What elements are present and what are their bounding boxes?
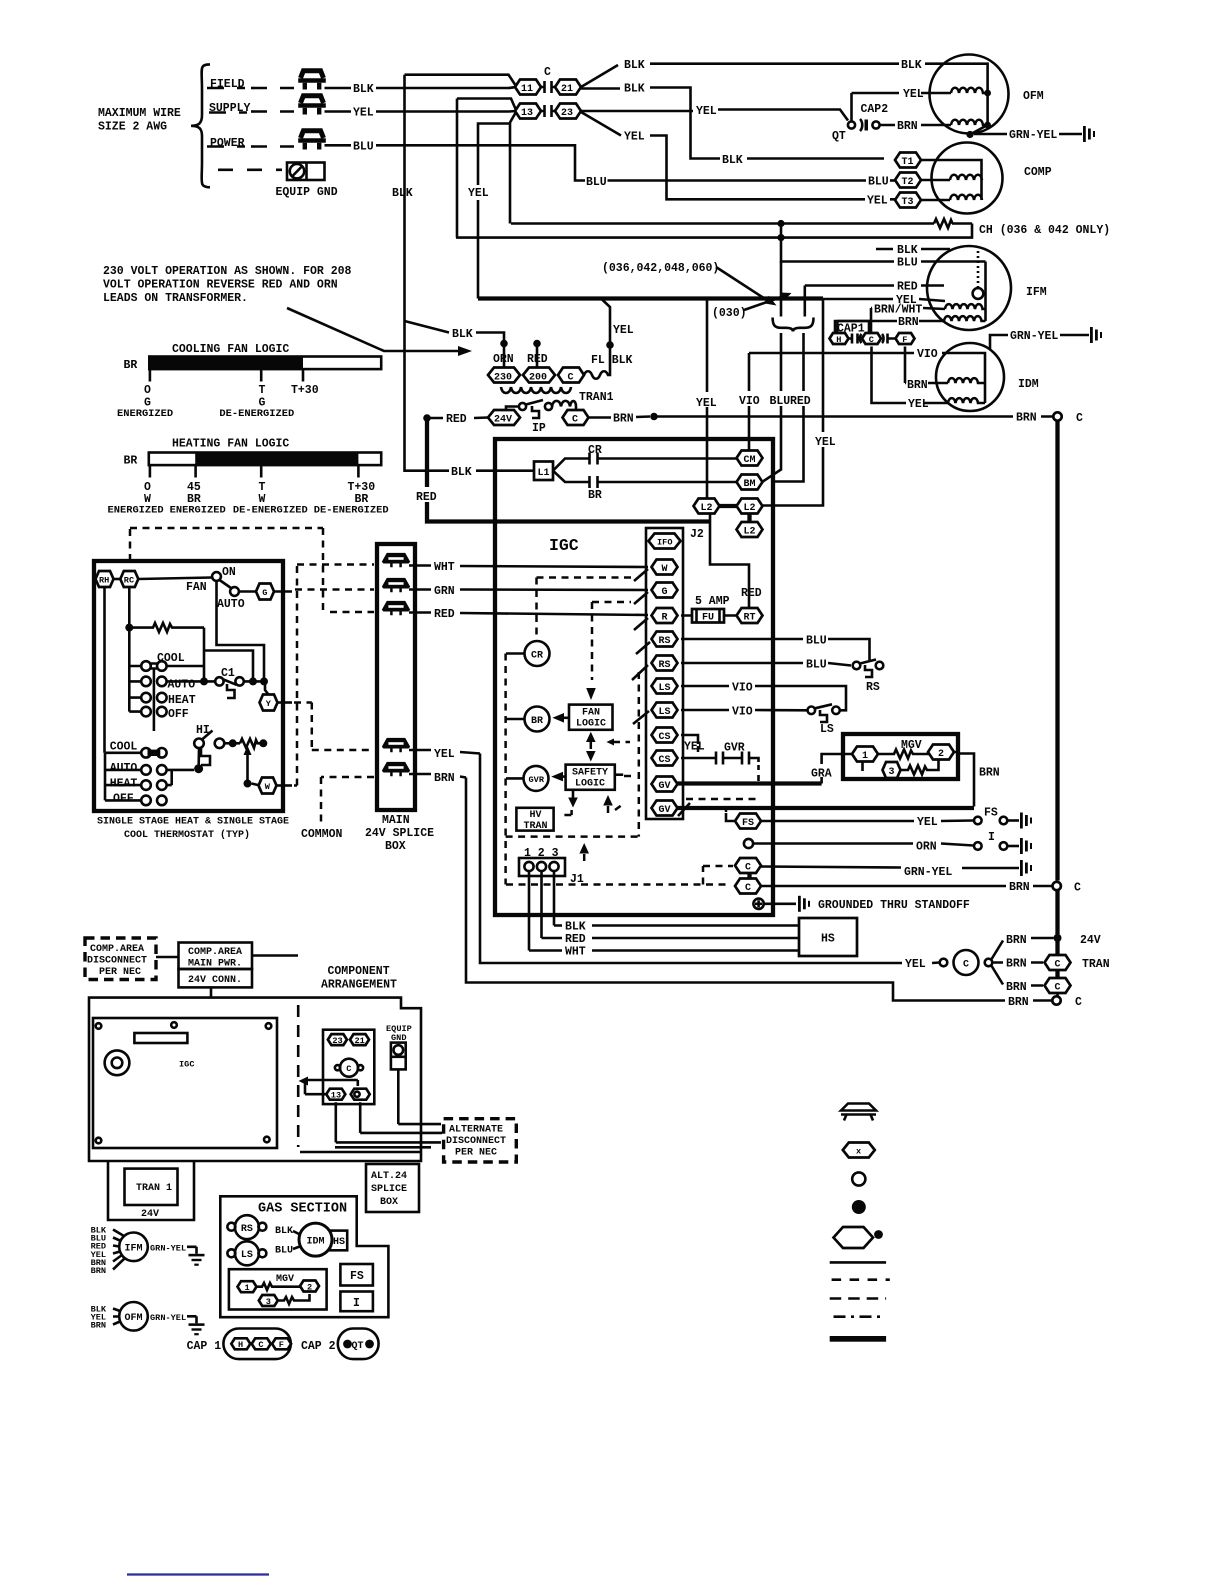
svg-text:O: O bbox=[144, 384, 151, 397]
svg-text:Y: Y bbox=[266, 699, 272, 709]
legend IFM circle bbox=[119, 1233, 148, 1262]
terminal MGV2 gas bbox=[300, 1281, 319, 1293]
MGV pin 1 tail bbox=[861, 762, 864, 772]
IGC panel washer bbox=[105, 1050, 130, 1075]
wire BRN long to C right bbox=[654, 415, 1053, 418]
selector upper circles col1 bbox=[141, 661, 151, 716]
arrows between fan and safety bbox=[586, 732, 596, 742]
wire BLU IFM bbox=[781, 224, 986, 262]
junction dot OFM bottom bbox=[966, 131, 973, 138]
slash R bbox=[634, 618, 648, 630]
terminal RS1 bbox=[652, 632, 678, 648]
OFM legend wires bbox=[113, 1309, 120, 1325]
svg-text:COOL: COOL bbox=[110, 741, 138, 754]
legend symbol plug hex bbox=[834, 1227, 883, 1248]
selector lower circles col2 bbox=[157, 748, 167, 805]
svg-text:YEL: YEL bbox=[917, 816, 938, 829]
wire RH down feeder bbox=[103, 587, 106, 753]
equip gnd lug arrangement bbox=[391, 1043, 406, 1070]
cluster wiring bbox=[305, 1080, 358, 1094]
svg-text:BLU: BLU bbox=[586, 176, 607, 189]
terminal Y bbox=[260, 695, 278, 711]
svg-text:RS: RS bbox=[659, 660, 671, 671]
wire BLK 21 to T1 bbox=[581, 88, 884, 159]
wire MGV 2 to BRN riser bbox=[954, 752, 974, 807]
svg-text:BLK: BLK bbox=[353, 83, 374, 96]
svg-text:230 VOLT OPERATION AS SHOWN. F: 230 VOLT OPERATION AS SHOWN. FOR 208 bbox=[103, 265, 352, 278]
terminal LS1 bbox=[652, 679, 678, 695]
splice wedge YEL bbox=[382, 738, 410, 752]
wire BRN out bbox=[409, 774, 466, 778]
wire BRN IFM bbox=[837, 321, 944, 332]
svg-text:BR: BR bbox=[124, 455, 138, 468]
svg-text:BLK: BLK bbox=[452, 328, 473, 341]
svg-text:C: C bbox=[745, 863, 751, 874]
anticipator arrow bbox=[246, 753, 249, 781]
wire ON drop bbox=[217, 581, 265, 681]
switch FS bbox=[974, 817, 1019, 825]
heating chart labels bbox=[108, 481, 389, 517]
svg-text:GRN-YEL: GRN-YEL bbox=[1010, 330, 1058, 343]
svg-text:CAP2: CAP2 bbox=[861, 103, 889, 116]
wire dot to HI bbox=[197, 748, 200, 769]
svg-text:IGC: IGC bbox=[549, 536, 579, 555]
terminal IFO bbox=[649, 534, 681, 549]
svg-text:G: G bbox=[262, 588, 267, 598]
dashed drop caps to GV1 bbox=[757, 765, 760, 781]
COMP.AREA DISCONNECT dashed box bbox=[85, 938, 156, 980]
wire dashed field lead bbox=[207, 87, 245, 90]
svg-text:HS: HS bbox=[333, 1237, 345, 1248]
wire YEL into OFM bbox=[852, 92, 952, 95]
wire GRN-YEL IFM row bbox=[990, 335, 1089, 350]
svg-text:YEL: YEL bbox=[684, 741, 705, 754]
wire bus line 4 bbox=[335, 1146, 431, 1149]
wire CR stub bbox=[506, 652, 525, 655]
wire 24V hex to IP bbox=[506, 407, 519, 412]
wire RS1 BLU bbox=[681, 639, 870, 660]
svg-text:YEL: YEL bbox=[696, 397, 717, 410]
junction dot RC bbox=[125, 624, 133, 632]
arrow dashed right of boxes bbox=[613, 741, 630, 744]
CAP 2 oval bbox=[338, 1329, 379, 1360]
svg-text:C: C bbox=[963, 960, 969, 971]
arrow callout to wires bbox=[716, 267, 763, 298]
note 230 volt operation bbox=[103, 265, 352, 305]
svg-text:J2: J2 bbox=[690, 528, 704, 541]
cap bars between H and C bbox=[849, 334, 862, 344]
svg-text:3: 3 bbox=[889, 767, 895, 778]
dashed corner below safety bbox=[564, 810, 571, 815]
svg-text:GROUNDED THRU STANDOFF: GROUNDED THRU STANDOFF bbox=[818, 899, 970, 912]
svg-text:WHT: WHT bbox=[434, 561, 455, 574]
dashed divider bbox=[297, 1005, 300, 1147]
selector upper circles col2 bbox=[157, 661, 167, 716]
svg-text:RED: RED bbox=[897, 281, 918, 294]
svg-text:COOL THERMOSTAT (TYP): COOL THERMOSTAT (TYP) bbox=[124, 829, 250, 841]
legend line solid bbox=[830, 1261, 886, 1264]
svg-text:I: I bbox=[988, 831, 995, 844]
svg-text:GV: GV bbox=[659, 781, 671, 792]
wire CS1 stub bbox=[681, 735, 698, 744]
svg-text:T3: T3 bbox=[902, 197, 914, 208]
svg-text:ORN: ORN bbox=[493, 353, 514, 366]
wire GV2 bbox=[678, 806, 975, 810]
svg-text:FAN: FAN bbox=[582, 708, 600, 719]
wire WHT out bbox=[409, 566, 648, 568]
IGC panel slot bbox=[134, 1033, 187, 1043]
wire BR stub bbox=[506, 718, 525, 721]
dashed W stub bbox=[294, 784, 297, 787]
wire 11 drop bus bbox=[360, 1102, 442, 1133]
svg-text:5 AMP: 5 AMP bbox=[695, 595, 730, 608]
svg-text:IDM: IDM bbox=[307, 1237, 325, 1248]
wire dashed supply lead bbox=[209, 111, 247, 114]
switch LS gas bbox=[227, 1241, 266, 1265]
wire ORN stem bbox=[503, 344, 506, 369]
svg-text:POWER: POWER bbox=[210, 137, 245, 150]
terminal CM bbox=[737, 451, 763, 467]
svg-text:ORN: ORN bbox=[916, 841, 937, 854]
svg-text:SPLICE: SPLICE bbox=[371, 1184, 407, 1195]
switch circle AUTO bbox=[230, 587, 239, 596]
dashed Y to splice bbox=[294, 703, 374, 751]
svg-text:RED: RED bbox=[446, 413, 467, 426]
svg-text:24V: 24V bbox=[141, 1209, 159, 1220]
svg-text:GRN: GRN bbox=[434, 585, 455, 598]
wire CS2 to GVR caps bbox=[681, 757, 716, 760]
wire VIO vertical to CM bbox=[748, 353, 751, 451]
IGC panel plate bbox=[93, 1018, 277, 1148]
svg-text:FS: FS bbox=[742, 818, 754, 829]
IFM internal dotted vertical bbox=[977, 251, 980, 287]
terminal MGV1 gas bbox=[238, 1281, 257, 1293]
wire BLK gas bbox=[293, 1231, 301, 1235]
wire C coil to C hexA bbox=[992, 961, 1043, 964]
capacitor GVR 2 bbox=[742, 752, 759, 765]
equip gnd lug bbox=[287, 163, 325, 181]
svg-text:L2: L2 bbox=[744, 527, 756, 538]
svg-text:T1: T1 bbox=[902, 157, 914, 168]
wire dashed equip gnd lead bbox=[218, 169, 282, 172]
svg-text:CH (036 & 042 ONLY): CH (036 & 042 ONLY) bbox=[979, 224, 1110, 237]
svg-text:RED: RED bbox=[434, 608, 455, 621]
wire GRN-YEL OFM legend bbox=[148, 1315, 197, 1318]
wire BLK to L1 bbox=[405, 321, 535, 471]
junction dots CH bbox=[777, 220, 784, 227]
terminal 11 bbox=[515, 80, 541, 96]
wire nut field bbox=[298, 71, 326, 90]
terminal 13 bbox=[515, 104, 541, 120]
svg-text:ENERGIZED: ENERGIZED bbox=[108, 505, 164, 517]
wire AUTO row to C1 bbox=[167, 680, 216, 683]
svg-text:LS: LS bbox=[820, 723, 834, 736]
svg-text:BRN/WHT: BRN/WHT bbox=[874, 304, 922, 317]
relay HS gas bbox=[330, 1231, 347, 1251]
wire C hex link bbox=[747, 873, 751, 879]
svg-text:IGC: IGC bbox=[179, 1060, 194, 1070]
svg-text:ON: ON bbox=[222, 566, 236, 579]
svg-text:HEATING FAN LOGIC: HEATING FAN LOGIC bbox=[172, 438, 289, 451]
wire C to IDM YEL bbox=[872, 347, 949, 404]
svg-text:CS: CS bbox=[659, 732, 671, 743]
terminal MGV 2 bbox=[928, 745, 954, 761]
resistor MGV 1-2 bbox=[878, 750, 929, 759]
svg-text:BLK: BLK bbox=[392, 187, 413, 200]
splice box MAIN bbox=[377, 544, 415, 810]
COMP.AREA MAIN PWR box bbox=[179, 943, 253, 970]
wire CH line 2 bbox=[456, 224, 972, 238]
svg-text:W: W bbox=[265, 782, 271, 792]
svg-text:BR: BR bbox=[124, 359, 138, 372]
svg-text:ALT.24: ALT.24 bbox=[371, 1171, 407, 1182]
svg-text:TRAN 1: TRAN 1 bbox=[136, 1183, 172, 1194]
switch LS bbox=[808, 704, 847, 722]
svg-text:RS: RS bbox=[659, 636, 671, 647]
svg-text:ENERGIZED: ENERGIZED bbox=[117, 408, 173, 420]
svg-text:23: 23 bbox=[561, 108, 573, 119]
svg-text:BRN: BRN bbox=[1006, 958, 1027, 971]
svg-text:C: C bbox=[544, 66, 551, 79]
svg-text:RS: RS bbox=[241, 1224, 253, 1235]
L1 fan lines bbox=[553, 459, 589, 483]
TRAN1 secondary coil bbox=[552, 401, 576, 411]
svg-text:COMP: COMP bbox=[1024, 166, 1052, 179]
circuit CR circle bbox=[525, 641, 550, 666]
switch circle ON bbox=[212, 572, 221, 581]
cooling chart labels bbox=[117, 384, 319, 420]
wire GVR stub bbox=[506, 777, 524, 780]
bridge COOL lower filled bbox=[148, 750, 161, 756]
wire RS2 BLU bbox=[681, 663, 851, 666]
wire F to IDM BRN bbox=[905, 347, 948, 384]
J2 connector box bbox=[646, 528, 683, 819]
relay FS gas box bbox=[340, 1264, 373, 1286]
junction dot BRN bbox=[650, 413, 658, 421]
wire C1 to Y bbox=[244, 681, 269, 694]
label MAIN 24V SPLICE BOX bbox=[365, 814, 434, 853]
terminal R bbox=[652, 608, 678, 624]
dashed W drop to CR bbox=[535, 578, 538, 641]
svg-text:YEL: YEL bbox=[624, 131, 645, 144]
legend line dashed bbox=[832, 1278, 890, 1281]
J1 connector box bbox=[519, 858, 565, 876]
svg-text:C: C bbox=[568, 373, 574, 384]
terminal 21 cluster bbox=[350, 1034, 369, 1046]
wire J1 pin3 BLK bbox=[554, 871, 799, 926]
wire corner 11 feed bbox=[457, 99, 516, 238]
wire ORN row bbox=[753, 844, 973, 846]
svg-text:BR: BR bbox=[531, 716, 543, 727]
terminal 23 cluster bbox=[328, 1034, 347, 1046]
svg-text:BRN: BRN bbox=[613, 413, 634, 426]
wiper bar upper bbox=[153, 668, 156, 731]
IGC board box bbox=[495, 439, 773, 915]
dashed R loop over thermostat bbox=[130, 528, 374, 612]
wire LS1 VIO bbox=[681, 686, 846, 708]
svg-text:HEAT: HEAT bbox=[110, 777, 138, 790]
wire GRN out bbox=[409, 588, 648, 591]
svg-text:BRN: BRN bbox=[1009, 881, 1030, 894]
svg-text:MGV: MGV bbox=[276, 1274, 294, 1285]
terminal W bbox=[652, 560, 678, 576]
svg-text:YEL: YEL bbox=[468, 187, 489, 200]
wire dashed power lead bbox=[207, 145, 245, 148]
wire GRN-YEL IFM legend bbox=[148, 1246, 197, 1249]
terminal CS2 bbox=[652, 751, 678, 767]
slash GV2 bbox=[678, 803, 690, 816]
wire BLK vertical from 11 bbox=[405, 75, 517, 321]
svg-text:DE-ENERGIZED: DE-ENERGIZED bbox=[233, 505, 308, 517]
IP switch bbox=[519, 400, 552, 418]
svg-text:PER NEC: PER NEC bbox=[455, 1148, 497, 1159]
ALTERNATE DISCONNECT dashed box bbox=[444, 1119, 517, 1162]
wire 13 drop bus bbox=[336, 1102, 441, 1142]
wire heavy YEL 298 line bbox=[478, 296, 823, 300]
svg-text:YEL: YEL bbox=[613, 324, 634, 337]
wire BLU to T2 bbox=[868, 179, 896, 182]
legend OFM circle bbox=[119, 1302, 148, 1331]
terminal RS2 bbox=[652, 656, 678, 672]
wire bus below C circle bbox=[1055, 890, 1059, 955]
wire VIO line to IDM bbox=[749, 353, 985, 403]
switch circle HI right bbox=[215, 739, 225, 749]
arrow safety logic to GVR bbox=[562, 775, 566, 778]
wire RED stem bbox=[536, 344, 539, 369]
safety logic right stub bbox=[615, 773, 623, 776]
svg-text:BLK: BLK bbox=[897, 244, 918, 257]
chassis ground FS bbox=[1020, 813, 1032, 829]
svg-text:COMPONENT: COMPONENT bbox=[328, 965, 390, 978]
svg-text:11: 11 bbox=[521, 84, 533, 95]
legend symbol open circle bbox=[852, 1172, 865, 1185]
wire YEL 23 to QT bbox=[581, 110, 848, 121]
terminal T3 bbox=[895, 193, 921, 209]
wire RH-RC link bbox=[114, 578, 121, 581]
svg-text:24V SPLICE: 24V SPLICE bbox=[365, 827, 434, 840]
label: MAXIMUM WIRE SIZE 2 AWG bbox=[98, 107, 181, 134]
circuit GVR circle bbox=[524, 766, 549, 791]
svg-text:200: 200 bbox=[529, 373, 547, 384]
svg-text:VIO: VIO bbox=[732, 682, 753, 695]
svg-text:L2: L2 bbox=[744, 503, 756, 514]
svg-text:C: C bbox=[869, 335, 874, 345]
junction dot RED bbox=[533, 340, 541, 348]
wire main pwr to divider bbox=[252, 954, 298, 957]
terminal MGV3 gas bbox=[259, 1295, 278, 1307]
cap2 contents bbox=[343, 1340, 374, 1352]
svg-text:BRN: BRN bbox=[434, 772, 455, 785]
switch I bbox=[974, 842, 1019, 850]
terminal C hexB bbox=[1045, 978, 1071, 994]
resistor thermostat bbox=[129, 623, 204, 632]
wire YEL bottom to C coil bbox=[480, 754, 940, 964]
wire L2 vertical link bbox=[747, 514, 751, 523]
svg-text:BRN: BRN bbox=[907, 379, 928, 392]
earth ground OFM bbox=[189, 1316, 205, 1335]
svg-text:OFF: OFF bbox=[168, 708, 189, 721]
svg-text:RH: RH bbox=[99, 576, 109, 586]
terminal FS bbox=[735, 814, 761, 830]
relay MGV box bbox=[843, 734, 958, 779]
resistor MGV3 gas bbox=[277, 1294, 309, 1304]
wire BLK to transformer bbox=[405, 321, 505, 344]
svg-text:BLK: BLK bbox=[624, 59, 645, 72]
svg-text:AUTO: AUTO bbox=[110, 762, 138, 775]
svg-text:SIZE 2 AWG: SIZE 2 AWG bbox=[98, 121, 167, 134]
COMP winding 2 bbox=[950, 195, 982, 200]
wire T3 into COMP winding bbox=[921, 199, 950, 202]
resistor MGV gas bbox=[256, 1283, 301, 1290]
wire GV1 riser to MGV bbox=[822, 754, 852, 784]
svg-text:BLK: BLK bbox=[901, 59, 922, 72]
OFM winding 1 bbox=[951, 88, 988, 93]
svg-text:IDM: IDM bbox=[1018, 378, 1039, 391]
svg-text:H: H bbox=[836, 335, 841, 345]
wire HI to anticipator bbox=[224, 742, 240, 745]
dashed left rail bbox=[504, 654, 507, 885]
wire nut power bbox=[298, 131, 326, 150]
unit bottom step line bbox=[300, 1151, 421, 1154]
svg-text:T2: T2 bbox=[902, 177, 914, 188]
svg-text:G: G bbox=[662, 587, 668, 598]
svg-text:YEL: YEL bbox=[353, 107, 374, 120]
circuit BR circle bbox=[525, 707, 550, 732]
transformer C circle bbox=[940, 950, 993, 975]
svg-text:EQUIP GND: EQUIP GND bbox=[276, 186, 338, 199]
svg-text:HS: HS bbox=[821, 933, 835, 946]
wire L2 to RT bbox=[710, 514, 749, 609]
capacitor between 13 and 23 bbox=[541, 105, 555, 117]
svg-text:CR: CR bbox=[588, 444, 602, 457]
legend line heavy dashed bbox=[830, 1297, 886, 1300]
svg-text:13: 13 bbox=[331, 1091, 341, 1101]
terminal T2 bbox=[895, 173, 921, 189]
svg-text:TRAN: TRAN bbox=[1082, 958, 1110, 971]
svg-text:YEL: YEL bbox=[867, 195, 888, 208]
svg-text:COMP.AREA: COMP.AREA bbox=[90, 944, 144, 955]
svg-text:BLU: BLU bbox=[897, 257, 918, 270]
svg-text:BLK: BLK bbox=[275, 1226, 293, 1237]
CAP1 label box bbox=[835, 321, 869, 336]
wire BRN from C bbox=[589, 417, 651, 418]
GAS SECTION box bbox=[220, 1196, 388, 1317]
terminal RT bbox=[737, 608, 763, 624]
IGC panel screws bbox=[96, 1022, 272, 1143]
svg-text:CAP 1: CAP 1 bbox=[187, 1340, 222, 1353]
wire W stub out bbox=[277, 784, 293, 787]
dashed W branch bbox=[537, 576, 635, 579]
junction dots OFM bbox=[984, 90, 991, 97]
relay L1 box bbox=[534, 462, 553, 481]
wire J1 pin1 WHT bbox=[529, 871, 799, 951]
svg-text:21: 21 bbox=[561, 84, 573, 95]
terminal BM bbox=[737, 475, 763, 491]
wire nut supply bbox=[298, 96, 326, 115]
terminal G bbox=[652, 583, 678, 599]
svg-text:RED: RED bbox=[741, 587, 762, 600]
terminal L2 right bbox=[737, 499, 763, 515]
capacitor CR bbox=[590, 453, 738, 465]
svg-text:F: F bbox=[279, 1340, 284, 1350]
terminal 200 bbox=[523, 368, 555, 384]
wire selector feeder upper bbox=[129, 628, 141, 712]
svg-text:L1: L1 bbox=[538, 468, 550, 479]
svg-text:BLU: BLU bbox=[275, 1246, 293, 1257]
wire power BLU bbox=[325, 145, 867, 180]
dashed G branch bbox=[592, 601, 631, 604]
wire BRN bottom row bbox=[466, 778, 1052, 1001]
